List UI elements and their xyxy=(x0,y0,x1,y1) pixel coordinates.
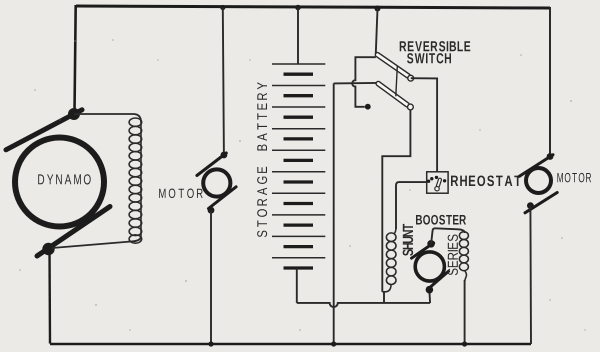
node junction series bottom xyxy=(462,341,467,346)
wire dynamo bottom to bottom bus xyxy=(48,249,51,344)
blade 2 xyxy=(375,81,410,108)
label SERIES xyxy=(448,235,458,276)
wire left bus xyxy=(75,5,76,113)
wire motor M2 to bottom bus xyxy=(529,206,532,344)
battery BT1 xyxy=(257,64,325,268)
field coil of dynamo xyxy=(129,118,142,243)
node junction battery top xyxy=(295,5,301,11)
wire top bus xyxy=(76,6,550,8)
blade 1 xyxy=(375,52,412,79)
node junction motor M1 bottom xyxy=(208,341,213,346)
booster G2 xyxy=(412,215,467,294)
wire motor M1 to bottom bus xyxy=(210,210,212,344)
reversible switch S1 xyxy=(334,41,471,110)
wire battery bottom to booster bottom (with hop) xyxy=(297,303,430,307)
label REVERSIBLE SWITCH xyxy=(400,41,471,51)
motor M2 xyxy=(519,153,591,213)
wire dynamo bottom dot to field coil xyxy=(52,237,141,248)
wire blade1 tip to rheostat top xyxy=(411,78,437,172)
shunt coil L1 xyxy=(382,227,396,292)
bracket wire blade1 pivot to stub xyxy=(352,57,376,107)
wire blade2 tip down to shunt bottom junction xyxy=(382,110,410,292)
wire rheostat left to shunt coil top xyxy=(396,182,427,229)
motor M1 xyxy=(159,152,236,214)
stub contact dot xyxy=(365,104,371,110)
dynamo G1 xyxy=(6,108,110,256)
wire right bus xyxy=(549,7,551,157)
wire booster bottom vertical xyxy=(428,291,431,303)
wire top bus to motor M1 xyxy=(223,8,224,155)
rheostat R1 xyxy=(427,172,521,193)
wire battery bottom xyxy=(296,268,298,303)
wire dynamo top dot to field coil xyxy=(74,114,141,122)
wire top bus to switch blade 1 pivot xyxy=(376,9,378,54)
wire bottom bus xyxy=(50,343,531,345)
label STORAGE BATTERY xyxy=(257,82,267,237)
tie bar xyxy=(396,66,398,96)
wire series coil to bottom bus xyxy=(464,280,466,344)
node junction long vertical bottom xyxy=(331,341,336,346)
node junction motor M1 top xyxy=(220,5,225,10)
wire blade2 pivot to long vertical xyxy=(334,82,377,85)
wire top bus to battery xyxy=(297,8,299,65)
series coil L2 xyxy=(459,232,468,282)
scan speckles xyxy=(19,39,586,331)
node junction switch top xyxy=(375,6,381,12)
label SHUNT xyxy=(403,224,414,256)
wire shunt junction to bottom horizontal xyxy=(383,292,385,303)
wire booster top to series coil xyxy=(431,228,465,244)
wire long vertical to bottom bus xyxy=(333,83,335,344)
